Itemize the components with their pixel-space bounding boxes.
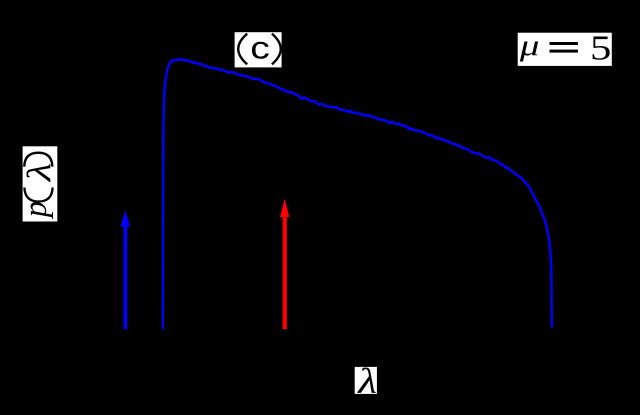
svg-text:5: 5: [590, 29, 611, 68]
legend label mu = 5: [518, 28, 612, 67]
hidden curve artifact dash at edge of (c) box: [235, 46, 237, 55]
svg-text:p: p: [18, 201, 54, 219]
svg-text:μ: μ: [519, 28, 540, 62]
red delta-spike arrow at lambda = mu: [280, 199, 289, 329]
blue delta-spike arrow at small lambda: [121, 210, 131, 329]
y-axis label p(lambda), rotated: [18, 146, 58, 221]
panel label (c): [235, 30, 282, 67]
parenthesis ( of p(lambda), rotated: smile arc: [24, 188, 52, 202]
svg-text:c: c: [250, 30, 270, 66]
svg-text:λ: λ: [357, 362, 377, 401]
blue density curve p(lambda), Marchenko-Pastur-like bulk: [163, 59, 552, 329]
parenthesis ) of p(lambda), rotated: frown arc: [24, 153, 52, 167]
x-axis label lambda: [355, 362, 377, 401]
